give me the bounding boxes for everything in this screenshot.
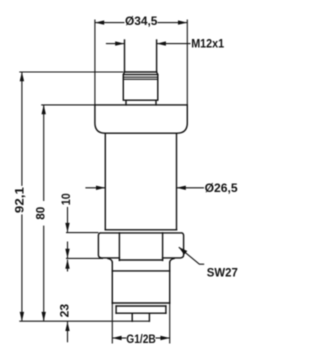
svg-text:Ø34,5: Ø34,5 xyxy=(125,14,158,28)
svg-text:23: 23 xyxy=(57,304,71,318)
svg-text:80: 80 xyxy=(33,206,47,219)
svg-text:92,1: 92,1 xyxy=(12,187,26,213)
svg-text:M12x1: M12x1 xyxy=(191,37,224,51)
svg-text:10: 10 xyxy=(59,193,73,205)
svg-text:SW27: SW27 xyxy=(207,265,238,279)
svg-text:Ø26,5: Ø26,5 xyxy=(205,181,238,195)
svg-text:G1/2B: G1/2B xyxy=(126,332,156,346)
